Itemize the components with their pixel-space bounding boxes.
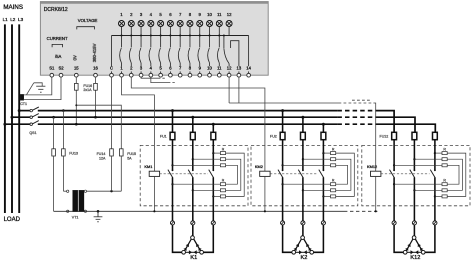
svg-text:K1: K1 bbox=[190, 255, 197, 261]
transformer VT1 bbox=[63, 190, 66, 192]
resistor R K2 bottom row 1 bbox=[283, 183, 331, 185]
fuse FU13b (VT1 primary, from bus L3) bbox=[62, 109, 65, 112]
fuse FU2 pole 2 bbox=[301, 132, 306, 139]
node bus junction 7 bbox=[179, 34, 181, 36]
wire output 3 stub bbox=[141, 77, 158, 78]
node bus tap K1 pole 2 bbox=[191, 116, 194, 119]
wire lamp 1 to relay bus bbox=[121, 26, 123, 35]
wire K1 pole 1 drop bbox=[172, 111, 174, 133]
svg-text:L1: L1 bbox=[3, 17, 9, 22]
contactor KM1 contact pole 2 bbox=[192, 169, 194, 171]
svg-text:2x1A: 2x1A bbox=[83, 88, 92, 92]
relay contact 3 bbox=[140, 36, 142, 48]
disconnect point K12 pole 2 bbox=[412, 221, 416, 225]
relay contact 10 bbox=[209, 36, 211, 48]
wire CT1 secondary to S2 bbox=[24, 77, 61, 100]
contactor coil KM2 bbox=[260, 171, 270, 176]
svg-text:10: 10 bbox=[207, 12, 212, 17]
resistor R K2 bottom row 2 bbox=[303, 189, 331, 191]
wire coil KM2 to common bbox=[264, 176, 266, 211]
current transformer CT1 bbox=[20, 94, 24, 100]
wire relay bus to terminal 14 bbox=[248, 36, 250, 67]
fuse FU16a on terminal 15 wire bbox=[75, 77, 77, 124]
svg-text:380-415V: 380-415V bbox=[92, 43, 97, 62]
capacitor bank K12 bbox=[394, 225, 403, 252]
wire resistor bracket K2 pole 1 bbox=[336, 165, 348, 184]
svg-text:13: 13 bbox=[237, 66, 242, 71]
capacitor bank K2 bbox=[283, 225, 292, 252]
wire lamp 11 to relay bus bbox=[218, 26, 220, 35]
svg-text:11: 11 bbox=[217, 66, 222, 71]
wire K1 pole 2 lower bbox=[192, 177, 194, 221]
contactor KM1 contact pole 3 bbox=[212, 169, 214, 171]
relay contact 11 bbox=[218, 36, 220, 48]
svg-text:MAINS: MAINS bbox=[3, 4, 23, 11]
disconnect point K12 pole 3 bbox=[433, 221, 437, 225]
node bus junction 3 bbox=[140, 34, 142, 36]
wire output 2 to contactor coil KM2 bbox=[131, 77, 265, 171]
node K2 pole 1 resistor taps bbox=[281, 164, 283, 166]
fuse FU2 pole 3 bbox=[321, 132, 326, 139]
contactor KM12 contact pole 3 bbox=[434, 169, 436, 171]
svg-text:14: 14 bbox=[246, 66, 251, 71]
svg-text:10: 10 bbox=[207, 66, 212, 71]
svg-text:R: R bbox=[222, 148, 225, 152]
node FU14 to VT1 secondary bbox=[110, 190, 112, 192]
wire resistor bracket K12 pole 2 bbox=[447, 159, 462, 190]
relay contact 6 bbox=[169, 36, 171, 48]
disconnect point K1 pole 2 bbox=[191, 221, 195, 225]
svg-text:15: 15 bbox=[74, 66, 79, 71]
wire terminal C feed bbox=[111, 36, 113, 67]
svg-text:S2: S2 bbox=[58, 66, 64, 71]
fuse FU14 12A bbox=[110, 149, 114, 156]
wire K2 pole 3 lower bbox=[322, 177, 324, 221]
svg-text:FU1: FU1 bbox=[160, 134, 167, 138]
relay contact 12 (changeover) bbox=[223, 36, 225, 49]
resistor R K1 top row 2 bbox=[193, 158, 221, 160]
resistor R K12 top row 2 bbox=[414, 158, 442, 160]
wire K2 pole 2 lower bbox=[302, 177, 304, 221]
node K2 pole 3 resistor taps bbox=[322, 152, 324, 154]
svg-text:VOLTAGE: VOLTAGE bbox=[78, 18, 98, 23]
wire relay common bus bbox=[112, 35, 249, 37]
fuse FU1 pole 3 bbox=[211, 132, 216, 139]
resistor R K2 top row 3 bbox=[283, 164, 331, 166]
wire K1 pole 3 drop bbox=[212, 124, 214, 132]
resistor R K1 bottom row 2 bbox=[193, 189, 221, 191]
wire terminal C to fuse FU14 bbox=[111, 77, 113, 149]
contactor KM2 contact pole 3 bbox=[323, 169, 325, 171]
linkage KM12 (dashed) bbox=[381, 173, 430, 175]
svg-text:S1: S1 bbox=[49, 66, 55, 71]
wire VT1 secondary node bbox=[87, 190, 122, 192]
wire mains L3 bbox=[18, 24, 20, 213]
svg-text:R: R bbox=[443, 148, 446, 152]
wire lamp 10 to relay bus bbox=[209, 26, 211, 35]
disconnect point K12 pole 1 bbox=[392, 221, 396, 225]
resistor R K12 bottom row 1 bbox=[394, 183, 442, 185]
svg-text:R: R bbox=[222, 179, 225, 183]
wire lamp 8 to relay bus bbox=[189, 26, 191, 35]
disconnect point K2 pole 3 bbox=[321, 221, 325, 225]
dashed enclosure K12 equipment bbox=[362, 145, 470, 205]
node K1 pole 1 resistor taps bbox=[171, 164, 173, 166]
capacitor bank K1 bbox=[173, 225, 182, 252]
dashed enclosure K1 equipment bbox=[140, 145, 248, 205]
fuse FU2 pole 1 bbox=[280, 132, 285, 139]
node K12 pole 3 resistor taps bbox=[434, 152, 436, 154]
disconnect point K1 pole 3 bbox=[211, 221, 215, 225]
node bus tap K2 pole 1 bbox=[281, 109, 284, 112]
svg-text:12: 12 bbox=[227, 12, 232, 17]
wire coil KM1 to common bbox=[153, 176, 155, 211]
wire K1 pole 1 lower bbox=[172, 177, 174, 221]
wire K2 pole 1 drop bbox=[282, 111, 284, 133]
node terminal 16 wire to bus L2 bbox=[94, 116, 97, 119]
wire lamp 12 to relay bus bbox=[228, 26, 230, 35]
wire lamp 4 to relay bus bbox=[150, 26, 152, 35]
fuse FU1 pole 2 bbox=[190, 132, 195, 139]
node bus junction 2 bbox=[130, 34, 132, 36]
ground earth at VT1 secondary bbox=[97, 210, 100, 213]
phase bus L3 top bbox=[38, 110, 338, 112]
relay contact 9 bbox=[199, 36, 201, 48]
svg-text:LOAD: LOAD bbox=[4, 217, 21, 223]
phase bus L2 middle bbox=[38, 116, 338, 118]
fuse FU12 pole 2 bbox=[412, 132, 417, 139]
linkage KM2 (dashed) bbox=[270, 173, 318, 175]
wire lamp 6 to relay bus bbox=[169, 26, 171, 35]
wire resistor bracket K2 pole 2 bbox=[336, 159, 351, 190]
ground earth at CT secondary bbox=[27, 83, 34, 95]
relay contact 1 bbox=[121, 36, 123, 48]
wire K12 pole 1 upper bbox=[393, 140, 395, 171]
svg-text:CURRENT: CURRENT bbox=[47, 36, 68, 41]
svg-text:KM1: KM1 bbox=[144, 164, 152, 169]
bracket voltage terminals bbox=[77, 27, 95, 30]
contactor coil KM1 bbox=[149, 171, 159, 176]
svg-text:11: 11 bbox=[217, 12, 222, 17]
relay contact 4 bbox=[150, 36, 152, 48]
fuse FU13a (VT1 primary, from bus L2) bbox=[52, 116, 55, 119]
node terminal 15 wire to bus L1 bbox=[75, 123, 78, 126]
fuse FU12 pole 1 bbox=[392, 132, 397, 139]
wire resistor bracket K1 pole 1 bbox=[226, 165, 238, 184]
node bus junction 5 bbox=[160, 34, 162, 36]
svg-text:16: 16 bbox=[93, 66, 98, 71]
disconnect point K2 pole 2 bbox=[301, 221, 305, 225]
fuse FU12 pole 3 bbox=[433, 132, 438, 139]
resistor R K1 top row 1 bbox=[213, 152, 220, 154]
wire K1 pole 2 upper bbox=[192, 140, 194, 171]
wire CT1 secondary to S1 bbox=[24, 77, 52, 95]
wire K2 pole 3 drop bbox=[322, 124, 324, 132]
contactor KM12 contact pole 2 bbox=[414, 169, 416, 171]
wire terminal 13 down bbox=[238, 77, 240, 103]
node bus junction 4 bbox=[150, 34, 152, 36]
resistor R K2 top row 2 bbox=[303, 158, 331, 160]
fuse FU15 5A bbox=[76, 105, 121, 149]
wire K1 pole 2 drop bbox=[192, 117, 194, 132]
bracket current terminals bbox=[52, 44, 62, 47]
node K12 pole 2 resistor taps bbox=[413, 158, 415, 160]
disconnect switch QS1 pole 1 bbox=[19, 110, 30, 112]
svg-text:DCRK8/12: DCRK8/12 bbox=[44, 7, 68, 13]
wire lamp 2 to relay bus bbox=[130, 26, 132, 35]
svg-text:KM2: KM2 bbox=[255, 164, 263, 169]
disconnect switch QS1 pole 3 bbox=[5, 123, 30, 125]
wire K12 pole 3 upper bbox=[434, 140, 436, 171]
node bus tap K2 pole 3 bbox=[322, 123, 325, 126]
svg-text:R: R bbox=[443, 179, 446, 183]
wire K1 pole 1 upper bbox=[172, 140, 174, 171]
relay contact 2 bbox=[130, 36, 132, 48]
dashed enclosure K2 equipment bbox=[251, 145, 358, 205]
disconnect point K2 pole 1 bbox=[281, 221, 285, 225]
wire lamp 7 to relay bus bbox=[179, 26, 181, 35]
wire mains L1 bbox=[4, 24, 6, 213]
linkage KM1 (dashed) bbox=[160, 173, 208, 175]
node bus junction 1 bbox=[120, 34, 122, 36]
node bus junction 12 bbox=[223, 34, 225, 36]
svg-text:K2: K2 bbox=[300, 255, 307, 261]
resistor R K1 bottom row 1 bbox=[173, 183, 221, 185]
resistor R K2 bottom row 3 bbox=[323, 195, 330, 197]
resistor R K12 bottom row 2 bbox=[414, 189, 442, 191]
wire K2 pole 1 lower bbox=[282, 177, 284, 221]
svg-text:12: 12 bbox=[227, 66, 232, 71]
wire omitted outputs stub (dashed) bbox=[352, 99, 372, 101]
contactor KM2 contact pole 1 bbox=[282, 169, 284, 171]
svg-text:CT1: CT1 bbox=[20, 102, 27, 106]
wire coil KM12 to common bbox=[375, 176, 377, 211]
resistor R K1 top row 3 bbox=[173, 164, 221, 166]
wire resistor bracket K1 pole 2 bbox=[226, 159, 241, 190]
wire output 4 stub bbox=[151, 77, 168, 83]
wire mains L2 bbox=[11, 24, 13, 213]
contactor coil KM12 bbox=[371, 171, 381, 176]
svg-text:K12: K12 bbox=[410, 255, 420, 261]
fuse FU1 pole 1 bbox=[170, 132, 175, 139]
node bus tap K2 pole 2 bbox=[301, 116, 304, 119]
svg-text:R: R bbox=[332, 179, 335, 183]
svg-text:FU13: FU13 bbox=[69, 152, 78, 156]
svg-text:12A: 12A bbox=[99, 156, 106, 160]
resistor R K1 bottom row 3 bbox=[213, 195, 220, 197]
wire K12 pole 1 lower bbox=[393, 177, 395, 221]
resistor R K12 top row 1 bbox=[435, 152, 442, 154]
wire K12 pole 2 upper bbox=[413, 140, 415, 171]
wire control common bbox=[54, 210, 344, 212]
relay contact 7 bbox=[179, 36, 181, 48]
contactor KM1 contact pole 1 bbox=[172, 169, 174, 171]
relay contact 5 bbox=[160, 36, 162, 48]
node K1 pole 2 resistor taps bbox=[192, 158, 194, 160]
svg-text:5A: 5A bbox=[127, 156, 132, 160]
svg-text:R: R bbox=[332, 148, 335, 152]
wire K2 pole 1 upper bbox=[282, 140, 284, 171]
resistor R K12 top row 3 bbox=[394, 164, 442, 166]
wire resistor bracket K12 pole 1 bbox=[447, 165, 459, 184]
wire resistor bracket K12 pole 3 bbox=[447, 153, 466, 196]
node K2 pole 2 resistor taps bbox=[302, 158, 304, 160]
disconnect switch QS1 pole 2 bbox=[12, 116, 30, 118]
svg-text:VT1: VT1 bbox=[72, 215, 79, 219]
svg-text:C: C bbox=[110, 66, 113, 71]
svg-text:FU12: FU12 bbox=[380, 134, 389, 138]
node bus tap K1 pole 1 bbox=[171, 109, 174, 112]
svg-text:L2: L2 bbox=[10, 17, 16, 22]
node bus tap K1 pole 3 bbox=[212, 123, 215, 126]
wire outputs 12/13 to contactor coil KM12 bbox=[229, 102, 338, 104]
wire lamp 3 to relay bus bbox=[140, 26, 142, 35]
contactor KM12 contact pole 1 bbox=[393, 169, 395, 171]
wire K2 pole 2 upper bbox=[302, 140, 304, 171]
fuse FU16b on terminal 16 wire bbox=[95, 77, 97, 117]
node bus junction 8 bbox=[189, 34, 191, 36]
contactor KM2 contact pole 2 bbox=[302, 169, 304, 171]
wire resistor bracket K2 pole 3 bbox=[336, 153, 355, 196]
phase bus L1 bottom bbox=[38, 123, 338, 125]
node bus junction 11 bbox=[218, 34, 220, 36]
node bus junction 10 bbox=[208, 34, 210, 36]
wire lamp 9 to relay bus bbox=[199, 26, 201, 35]
wire K12 pole 3 lower bbox=[434, 177, 436, 221]
svg-text:KM12: KM12 bbox=[367, 164, 377, 169]
controller DCRK8/12 enclosure bbox=[40, 2, 268, 76]
node K12 pole 1 resistor taps bbox=[393, 164, 395, 166]
wire K1 pole 3 lower bbox=[212, 177, 214, 221]
wire K2 pole 3 upper bbox=[322, 140, 324, 171]
wire output 1 to contactor coil KM1 bbox=[122, 77, 155, 171]
disconnect point K1 pole 1 bbox=[170, 221, 174, 225]
node bus junction 6 bbox=[169, 34, 171, 36]
node K1 pole 3 resistor taps bbox=[212, 152, 214, 154]
node bus junction 9 bbox=[199, 34, 201, 36]
svg-text:FU2: FU2 bbox=[270, 134, 277, 138]
wire resistor bracket K1 pole 3 bbox=[226, 153, 245, 196]
svg-text:/5A: /5A bbox=[55, 54, 62, 59]
resistor R K12 bottom row 3 bbox=[435, 195, 442, 197]
wire K1 pole 3 upper bbox=[212, 140, 214, 171]
wire lamp 5 to relay bus bbox=[160, 26, 162, 35]
svg-text:L3: L3 bbox=[18, 17, 24, 22]
wire output 12 down bbox=[228, 77, 230, 103]
wire K12 pole 2 lower bbox=[413, 177, 415, 221]
wire K2 pole 2 drop bbox=[302, 117, 304, 132]
wire NC throw to terminal 13 bbox=[238, 71, 240, 73]
resistor R K2 top row 1 bbox=[323, 152, 330, 154]
svg-text:0V: 0V bbox=[72, 55, 77, 60]
relay contact 8 bbox=[189, 36, 191, 48]
svg-text:QS1: QS1 bbox=[29, 131, 36, 135]
